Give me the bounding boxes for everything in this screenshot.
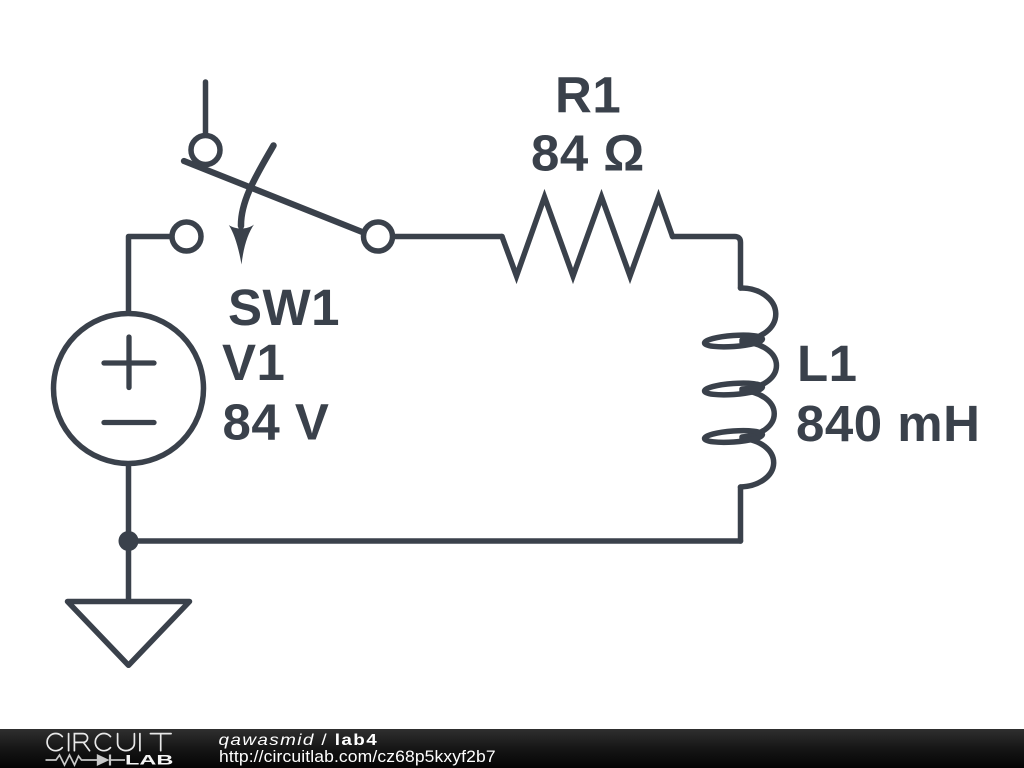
wire: bottom rail	[129, 538, 741, 544]
svg-text:SW1: SW1	[228, 279, 340, 336]
junction node dot	[119, 531, 139, 551]
CircuitLab logo resistor-diode squiggle	[46, 755, 126, 766]
wire: resistor to inductor top	[673, 237, 741, 289]
footer bar	[0, 729, 1024, 768]
wire: inductor bottom to bottom rail	[738, 487, 744, 541]
switch SW1 arrowhead	[229, 225, 254, 265]
switch SW1 right terminal circle	[364, 222, 393, 251]
switch SW1 actuation arrow arc	[241, 146, 274, 227]
switch SW1 top terminal circle	[191, 136, 220, 165]
switch SW1 left terminal circle	[172, 222, 201, 251]
svg-text:L1: L1	[797, 335, 858, 392]
wire: switch top stub	[203, 82, 209, 135]
svg-text:84 V: 84 V	[223, 394, 330, 451]
svg-text:http://circuitlab.com/cz68p5kx: http://circuitlab.com/cz68p5kxyf2b7	[219, 746, 496, 766]
svg-text:84 Ω: 84 Ω	[531, 125, 645, 182]
switch SW1 lever	[184, 161, 366, 234]
resistor R1	[502, 197, 673, 276]
inductor L1 coil	[704, 288, 776, 487]
CircuitLab logo CIRCUIT (drawn letters)	[47, 734, 171, 751]
wire: source bottom	[126, 465, 132, 541]
wire: switch right terminal to resistor	[394, 234, 503, 240]
wire: node to ground	[126, 541, 132, 602]
voltage source V1 plus sign	[104, 337, 154, 388]
svg-text:840 mH: 840 mH	[796, 395, 980, 452]
wire: source top to switch left terminal	[129, 237, 171, 313]
voltage source V1 circle	[54, 314, 204, 464]
ground symbol	[68, 602, 190, 666]
svg-text:V1: V1	[222, 334, 285, 391]
svg-text:LAB: LAB	[125, 752, 173, 768]
voltage source V1 minus sign	[104, 420, 154, 425]
svg-text:R1: R1	[555, 67, 621, 124]
